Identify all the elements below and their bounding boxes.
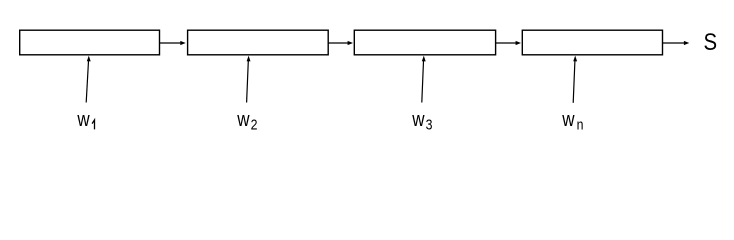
svg-text:S: S	[704, 28, 718, 55]
label wn	[561, 108, 583, 133]
wire arrow wn input	[573, 56, 577, 103]
label w3	[411, 108, 432, 133]
label w1	[76, 108, 94, 131]
label w2	[236, 108, 257, 133]
wire arrow box4 to output S	[663, 41, 690, 45]
wire arrow box3 to box4	[496, 41, 521, 45]
wire arrow box2 to box3	[328, 41, 353, 45]
block box 3	[354, 30, 495, 55]
wire arrow w2 input	[247, 56, 251, 103]
svg-text:w: w	[76, 108, 90, 131]
node S output label	[704, 28, 718, 55]
block box 1	[20, 30, 160, 55]
block box 2	[188, 30, 329, 55]
wire arrow w3 input	[422, 56, 426, 103]
wire arrow w1 input	[86, 56, 91, 103]
block box 4	[522, 30, 662, 55]
wire arrow box1 to box2	[160, 41, 186, 45]
